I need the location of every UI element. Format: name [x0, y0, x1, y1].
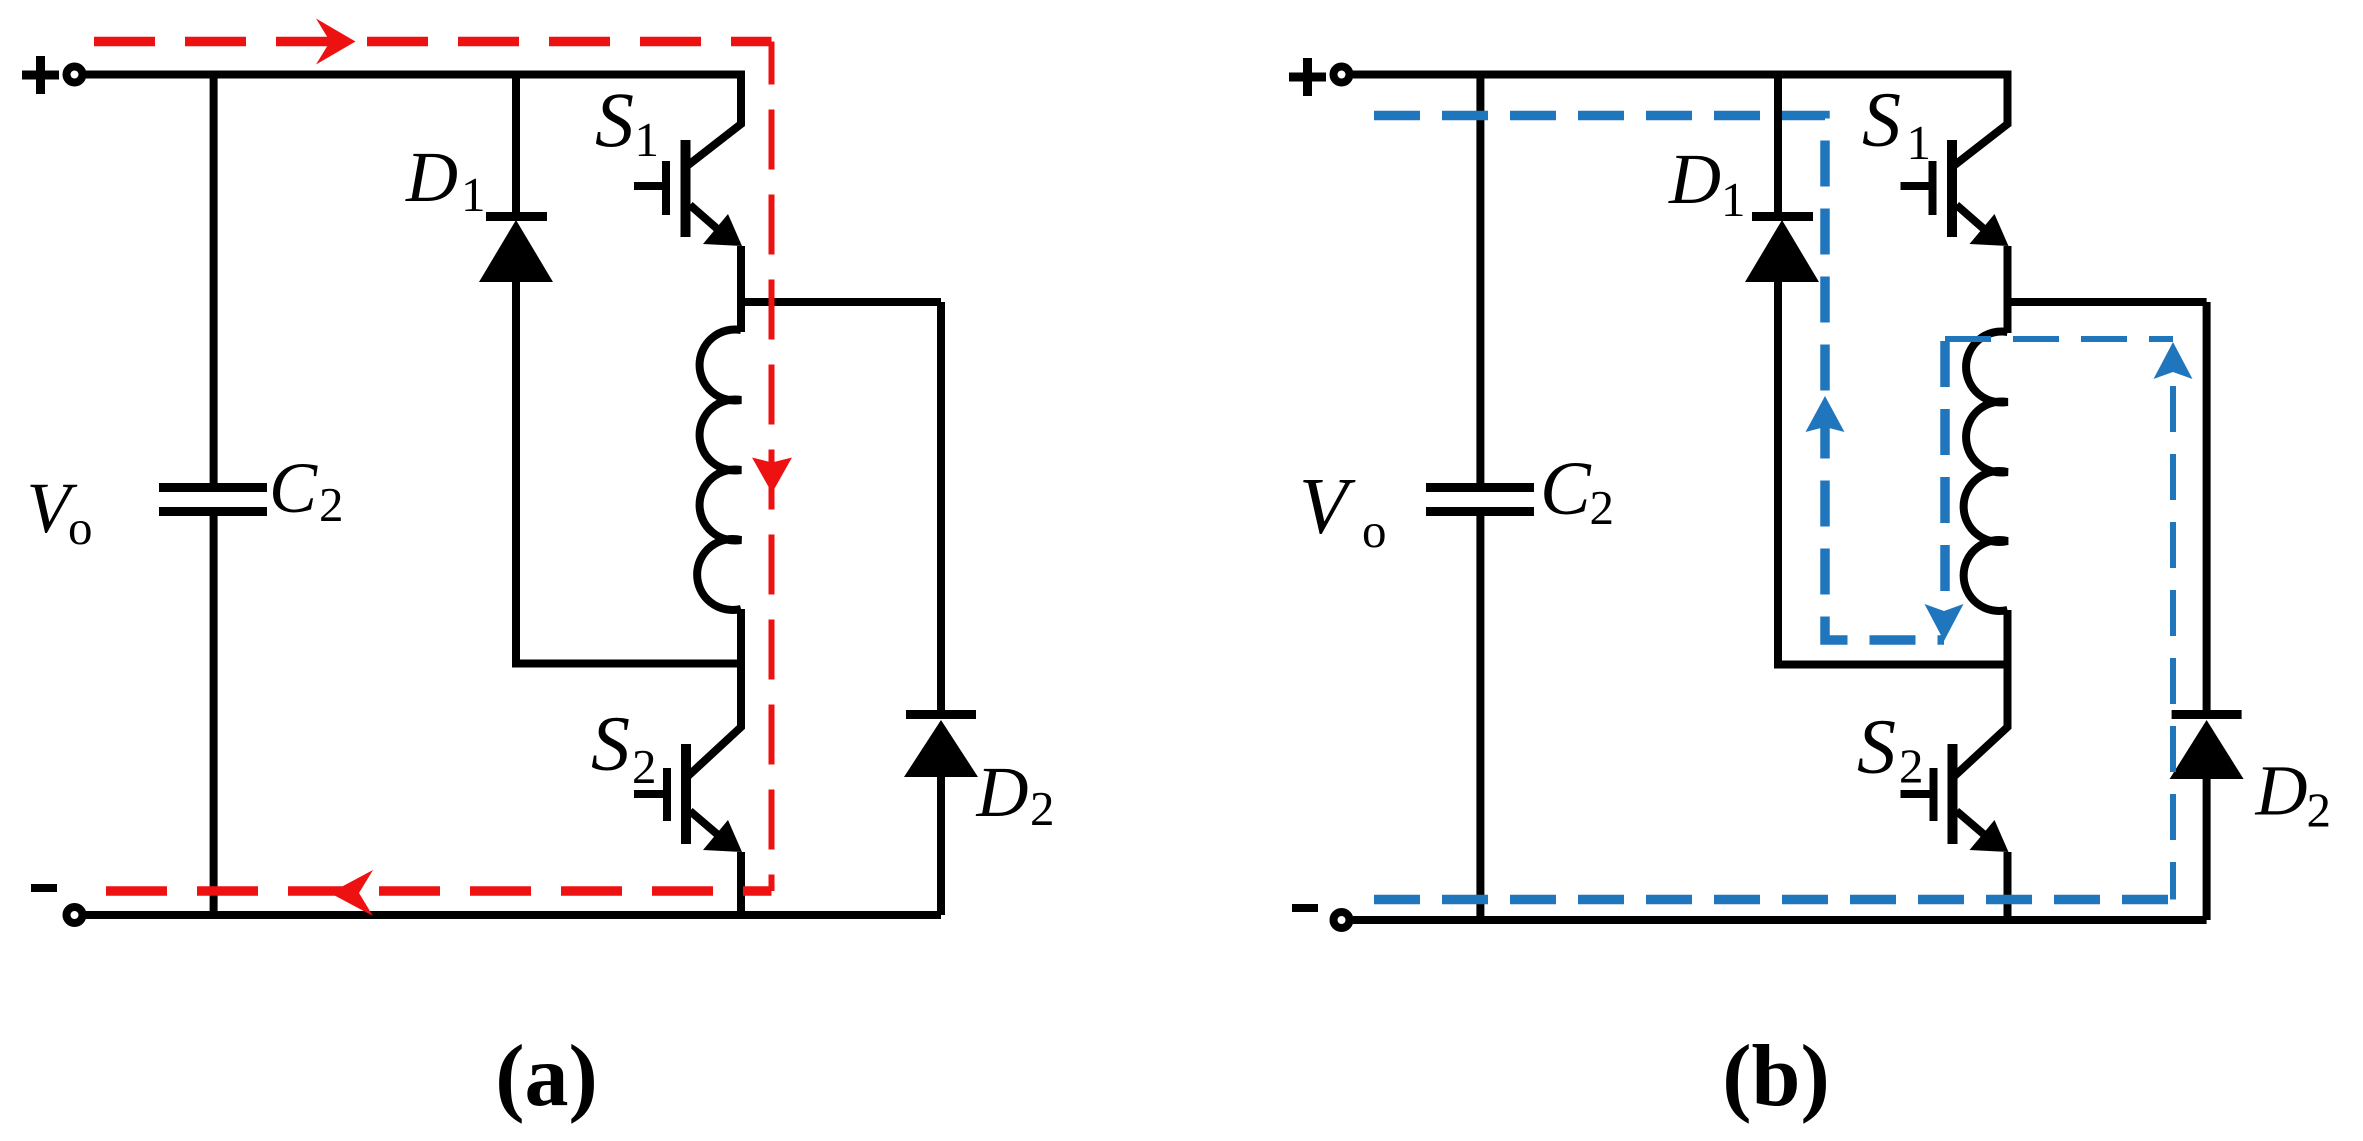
wire C2 branch lower (a) [210, 516, 218, 915]
wire S1 emitter to node (b) [2004, 246, 2012, 302]
transistor S1 body bar (a) [681, 140, 691, 237]
svg-text:2: 2 [1590, 480, 1615, 535]
diode D2 cathode bar (a) [906, 710, 976, 719]
svg-text:C: C [269, 448, 318, 528]
transistor S2 gate bar (a) [663, 768, 671, 821]
svg-text:V: V [1299, 463, 1356, 551]
wire D2 branch upper (a) [937, 302, 945, 712]
wire D1 branch upper (b) [1774, 75, 1782, 215]
blue arrow up at D1 (b) [1806, 396, 1845, 432]
blue arrow down at inductor (b) [1925, 604, 1964, 641]
wire node to inductor (b) [2004, 302, 2012, 333]
wire D1 branch lower (a) [516, 280, 741, 664]
wire bottom rail (a) [86, 911, 941, 919]
capacitor C2 plates (a) [159, 483, 267, 492]
inductor L coil (a) [697, 330, 741, 611]
minus terminal marker (b) [1292, 904, 1318, 912]
red arrow right on top wire (a) [316, 19, 356, 65]
svg-text:D: D [976, 752, 1029, 832]
transistor S2 emitter lead (a) [690, 811, 731, 846]
diode D1 cathode bar (b) [1752, 212, 1813, 221]
wire inductor bottom to S2 (b) [1954, 610, 2008, 777]
svg-text:2: 2 [319, 477, 344, 532]
svg-text:1: 1 [1721, 172, 1746, 227]
svg-text:S: S [595, 76, 634, 163]
red arrow left on bottom wire (a) [330, 870, 373, 916]
capacitor C2 plates (b) [1426, 483, 1534, 492]
svg-text:D: D [1668, 139, 1721, 219]
wire bottom rail (b) [1353, 916, 2207, 924]
diode D1 triangle (b) [1745, 220, 1819, 282]
transistor S1 gate bar (b) [1929, 161, 1937, 215]
svg-text:S: S [1857, 703, 1896, 790]
svg-text:1: 1 [635, 112, 660, 167]
blue arrow up at D2 (b) [2154, 342, 2193, 379]
wire D2 branch lower (a) [937, 775, 945, 915]
wire D2 branch lower (b) [2203, 775, 2211, 920]
svg-text:D: D [405, 137, 458, 217]
wire C2 branch upper (a) [210, 75, 218, 484]
wire D1 branch upper (a) [512, 75, 520, 215]
svg-text:1: 1 [1907, 115, 1932, 170]
minus terminal marker (a) [31, 884, 57, 892]
transistor S1 emitter lead (a) [690, 205, 730, 240]
transistor S2 emitter lead (b) [1957, 811, 1998, 846]
transistor S1 collector lead (b) [1954, 71, 2008, 167]
svg-text:(b): (b) [1722, 1028, 1830, 1125]
wire S1 emitter to node (a) [737, 246, 745, 302]
transistor S1 gate bar (a) [662, 161, 670, 215]
svg-text:S: S [591, 700, 630, 787]
diode D2 triangle (b) [2170, 720, 2244, 779]
transistor S2 body bar (b) [1948, 744, 1958, 844]
svg-text:(a): (a) [495, 1028, 598, 1125]
svg-text:2: 2 [1030, 781, 1055, 836]
red dashed wire right vertical (a) [769, 42, 775, 892]
svg-text:S: S [1862, 76, 1901, 163]
wire C2 branch upper (b) [1476, 75, 1484, 484]
transistor S2 gate lead (a) [634, 790, 663, 798]
svg-text:D: D [2255, 751, 2308, 831]
blue dashed wire inductor vertical (b) [1940, 341, 1950, 630]
wire C2 branch lower (b) [1476, 516, 1484, 920]
transistor S2 emitter arrowhead (a) [703, 820, 742, 852]
transistor S2 emitter arrowhead (b) [1970, 820, 2009, 852]
transistor S1 emitter arrowhead (a) [703, 214, 742, 246]
blue dashed wire inductor top (b) [1945, 336, 2173, 342]
diode D1 cathode bar (a) [486, 212, 547, 221]
svg-text:o: o [1362, 503, 1387, 558]
transistor S2 gate bar (b) [1930, 768, 1938, 821]
diode D2 triangle (a) [904, 720, 978, 777]
plus terminal marker (a) [22, 56, 59, 94]
transistor S1 body bar (b) [1947, 140, 1957, 237]
wire node to D2 top (b) [2008, 298, 2207, 306]
red dashed wire bottom (a) [106, 886, 772, 896]
node - terminal circle (b) [1334, 912, 1350, 928]
node + terminal circle (b) [1334, 67, 1350, 83]
wire D2 branch upper (b) [2203, 302, 2211, 712]
wire node to D2 top (a) [741, 298, 941, 306]
blue dashed wire bottom (b) [1374, 895, 2173, 905]
svg-text:o: o [68, 500, 93, 555]
wire inductor bottom to S2 (a) [687, 609, 741, 777]
transistor S2 gate lead (b) [1901, 790, 1930, 798]
red arrow down at inductor (a) [752, 458, 792, 494]
blue dashed wire D2 vertical (b) [2170, 386, 2176, 900]
transistor S1 emitter arrowhead (b) [1970, 214, 2009, 246]
diode D2 cathode bar (b) [2172, 710, 2242, 719]
wire top rail (a) [86, 71, 741, 79]
node + terminal circle (a) [67, 67, 83, 83]
red dashed wire top (a) [94, 37, 772, 47]
node - terminal circle (a) [67, 907, 83, 923]
wire S2 emitter to bottom rail (a) [737, 852, 745, 915]
transistor S1 collector lead (a) [687, 71, 741, 167]
svg-text:C: C [1540, 447, 1592, 531]
wire top rail (b) [1353, 71, 2008, 79]
wire S2 emitter to bottom rail (b) [2004, 852, 2012, 920]
svg-text:2: 2 [632, 739, 657, 794]
transistor S1 gate lead (b) [1901, 182, 1929, 190]
transistor S2 body bar (a) [681, 744, 691, 844]
plus terminal marker (b) [1289, 58, 1326, 96]
diode D1 triangle (a) [479, 220, 553, 282]
svg-text:2: 2 [1899, 739, 1924, 794]
inductor L coil (b) [1964, 331, 2008, 611]
transistor S1 gate lead (a) [634, 182, 662, 190]
svg-text:2: 2 [2307, 783, 2332, 838]
wire node to inductor (a) [737, 302, 745, 332]
blue dashed wire D1 loop (b) [1374, 116, 1944, 641]
wire D1 branch lower (b) [1778, 280, 2008, 665]
transistor S1 emitter lead (b) [1957, 205, 1997, 240]
svg-text:1: 1 [461, 167, 486, 222]
